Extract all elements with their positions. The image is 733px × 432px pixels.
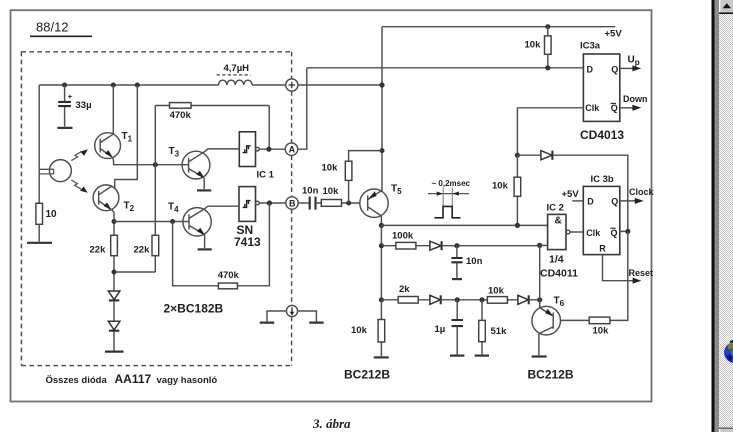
svg-text:10n: 10n — [466, 256, 483, 267]
svg-text:AA117: AA117 — [115, 372, 152, 386]
svg-text:10n: 10n — [302, 186, 319, 197]
svg-text:470k: 470k — [218, 270, 240, 281]
svg-text:~ 0,2msec: ~ 0,2msec — [432, 179, 471, 188]
svg-text:4,7µH: 4,7µH — [224, 63, 250, 74]
svg-text:2k: 2k — [399, 284, 410, 295]
svg-text:CD4011: CD4011 — [540, 267, 578, 279]
svg-text:IC3a: IC3a — [580, 41, 601, 52]
svg-text:88/12: 88/12 — [36, 20, 69, 35]
svg-text:IC 1: IC 1 — [257, 170, 275, 181]
svg-text:10: 10 — [46, 209, 58, 220]
svg-text:470k: 470k — [170, 110, 192, 121]
svg-text:Q: Q — [611, 228, 618, 238]
svg-text:CD4013: CD4013 — [580, 128, 624, 142]
svg-text:D: D — [587, 64, 594, 74]
svg-text:BC212B: BC212B — [344, 368, 390, 382]
svg-text:10k: 10k — [323, 186, 340, 197]
svg-text:&: & — [555, 216, 562, 227]
svg-text:vagy hasonló: vagy hasonló — [157, 375, 218, 386]
svg-text:1/4: 1/4 — [549, 253, 564, 265]
svg-text:Down: Down — [623, 94, 648, 104]
svg-text:7413: 7413 — [234, 235, 261, 249]
svg-text:10k: 10k — [488, 285, 505, 296]
svg-text:+5V: +5V — [605, 29, 623, 40]
svg-text:3. ábra: 3. ábra — [312, 416, 351, 431]
svg-text:Clk: Clk — [586, 228, 601, 238]
svg-text:10k: 10k — [322, 163, 339, 174]
svg-text:100k: 100k — [392, 230, 414, 241]
svg-text:Összes dióda: Összes dióda — [46, 375, 108, 386]
svg-text:Q: Q — [611, 197, 618, 207]
svg-text:+5V: +5V — [562, 189, 580, 200]
svg-text:Reset: Reset — [629, 268, 654, 278]
svg-text:33µ: 33µ — [76, 100, 92, 111]
svg-text:10k: 10k — [593, 326, 610, 337]
svg-text:R: R — [599, 243, 606, 253]
svg-text:Q: Q — [611, 64, 618, 74]
svg-text:1µ: 1µ — [435, 324, 446, 335]
svg-text:BC212B: BC212B — [528, 368, 574, 382]
svg-text:B: B — [289, 198, 296, 208]
svg-text:10k: 10k — [525, 40, 542, 51]
svg-text:22k: 22k — [134, 245, 151, 256]
svg-text:IC 2: IC 2 — [547, 203, 564, 214]
svg-text:IC 3b: IC 3b — [591, 174, 614, 185]
svg-text:2×BC182B: 2×BC182B — [164, 302, 224, 316]
svg-text:22k: 22k — [90, 245, 107, 256]
svg-text:10k: 10k — [351, 325, 368, 336]
svg-text:Clk: Clk — [585, 103, 600, 113]
svg-text:D: D — [587, 197, 594, 207]
svg-text:A: A — [289, 145, 296, 155]
svg-text:51k: 51k — [491, 326, 508, 337]
svg-text:10k: 10k — [492, 181, 509, 192]
svg-text:Clock: Clock — [629, 187, 655, 197]
svg-text:Q: Q — [611, 103, 618, 113]
